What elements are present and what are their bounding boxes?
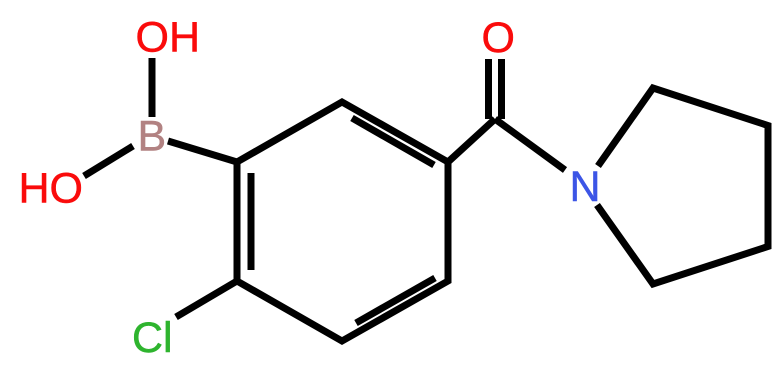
svg-text:Cl: Cl (132, 314, 173, 362)
svg-text:N: N (570, 163, 601, 211)
svg-text:B: B (138, 112, 167, 160)
svg-text:HO: HO (19, 165, 84, 213)
svg-text:O: O (482, 14, 515, 62)
svg-text:OH: OH (136, 13, 201, 61)
